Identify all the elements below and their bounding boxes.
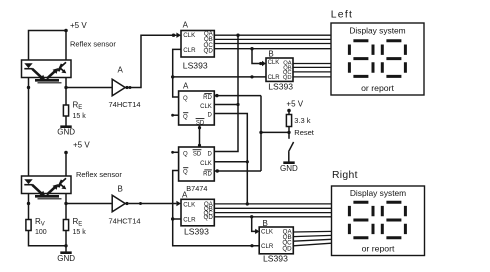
junction RD U3a pin dot: [215, 94, 218, 97]
svg-text:LS393: LS393: [184, 227, 209, 237]
svg-text:15 k: 15 k: [73, 229, 87, 236]
svg-text:LS393: LS393: [268, 82, 293, 92]
junction on LED2 cathode wire: [27, 202, 30, 205]
node +5V reset: [286, 99, 303, 112]
wire QD B1 to display: [293, 76, 331, 78]
wire QD A1 to CLK B1 cascade: [252, 49, 262, 64]
wire RD bus vertical: [260, 96, 262, 171]
resistor RV: [26, 217, 47, 236]
wire CLR A2 branch: [173, 218, 181, 220]
svg-text:or report: or report: [362, 243, 395, 253]
svg-text:Q: Q: [183, 115, 188, 121]
wire R1 to reset node: [288, 127, 290, 133]
wire U3b RD to reset bus: [214, 170, 261, 172]
wire QB B1 to display: [293, 66, 331, 68]
wire emitter 2 to RE2: [65, 194, 67, 220]
svg-text:A: A: [182, 191, 188, 200]
svg-text:A: A: [183, 20, 189, 29]
resistor RE2: [63, 217, 86, 236]
pin dot U3b Q: [171, 151, 174, 154]
svg-text:100: 100: [35, 229, 47, 236]
wire +5V to collector sensor 1: [65, 31, 67, 61]
stub U3b Q: [172, 151, 178, 153]
wire QC A2 to display: [214, 212, 331, 214]
svg-text:B: B: [268, 49, 273, 58]
junction CLR bus left: [171, 75, 174, 78]
junction on LED chain: [27, 86, 30, 89]
junction SD lower: [198, 144, 201, 147]
svg-text:CLK: CLK: [268, 60, 280, 66]
junction CLR A2 tap: [171, 217, 174, 220]
junction SD upper: [198, 126, 201, 129]
ground GND1: [57, 127, 75, 137]
wire CLR A1 to Q of U3a: [173, 49, 181, 97]
wire QD A1 to display: [214, 48, 331, 50]
svg-text:or report: or report: [361, 83, 394, 93]
junction ground rail: [64, 244, 67, 247]
svg-text:CLK: CLK: [183, 32, 196, 39]
counter LS393 B2 (Right, second): [259, 219, 293, 264]
wire U3b Qbar to CLR bus of right counters: [173, 171, 260, 246]
svg-text:74HCT14: 74HCT14: [109, 100, 141, 109]
wire RV to ground rail: [29, 231, 67, 246]
svg-text:+5 V: +5 V: [73, 140, 90, 149]
wire emitter 1 to RE1: [65, 78, 67, 106]
svg-text:74HCT14: 74HCT14: [109, 216, 141, 225]
reflective bar sensor 1: [35, 80, 62, 83]
svg-text:GND: GND: [280, 164, 298, 173]
seven segment digit 1 Left: [349, 41, 373, 77]
wire LED2 cathode to RV: [28, 194, 30, 220]
wire QD A2 to CLK B2 cascade: [252, 217, 256, 232]
clock wedge CLK B2: [255, 229, 259, 234]
svg-text:RD: RD: [203, 95, 212, 101]
junction QD A1: [250, 47, 253, 50]
LED D2: [24, 179, 32, 184]
svg-text:SD: SD: [196, 120, 205, 126]
clock wedge CLK A1: [176, 33, 181, 38]
display Right box outline: [332, 186, 425, 256]
svg-text:B: B: [263, 219, 268, 228]
wire to GND2: [65, 246, 67, 252]
svg-text:CLR: CLR: [268, 75, 281, 81]
wire QA A1 to U3a CLK and U3b D: [214, 35, 238, 151]
emitted beam arrow sensor 1: [32, 69, 45, 81]
junction QA A1: [236, 34, 239, 37]
phototransistor Q2: [59, 178, 67, 189]
inverter B 74HCT14: [109, 185, 141, 226]
inverter A 74HCT14: [109, 66, 141, 109]
svg-text:3.3 k: 3.3 k: [294, 116, 311, 125]
svg-text:B: B: [118, 185, 123, 194]
svg-text:Display system: Display system: [350, 188, 406, 198]
svg-text:CLR: CLR: [183, 216, 196, 223]
junction QA A2 riser: [246, 202, 249, 205]
ground GND3: [280, 163, 298, 173]
svg-text:QD: QD: [204, 47, 214, 54]
LED D1: [24, 63, 32, 68]
svg-text:RV: RV: [35, 217, 45, 228]
junction QD A2: [250, 215, 253, 218]
wire SD link U3a to U3b: [199, 125, 201, 147]
ground GND2: [57, 253, 75, 263]
junction node B: [64, 202, 67, 205]
counter LS393 A2 (Right, first): [181, 191, 214, 237]
svg-text:LS393: LS393: [183, 60, 208, 70]
svg-text:QD: QD: [204, 214, 214, 221]
resistor RE1: [63, 101, 86, 121]
wire RE2 to ground rail: [65, 231, 67, 246]
seven segment digit 1 Right: [349, 202, 373, 238]
wire +5V to LED anode sensor 1: [29, 31, 67, 61]
wire inverter A output to CLK of LS393 A1: [129, 35, 177, 87]
wire QC B1 to display: [293, 71, 331, 73]
junction CLK U3b tap: [246, 160, 249, 163]
junction on node B wire: [139, 202, 142, 205]
wire QD B2 to display: [293, 243, 331, 246]
wire RE1 to GND1: [65, 116, 67, 126]
resistor R1 3.3k: [286, 111, 310, 127]
node +5V sensor 2: [64, 140, 90, 154]
wire U3a RD to reset bus: [214, 95, 261, 97]
junction on CLR B1 wire: [250, 75, 253, 78]
wire node B to inverter B input: [66, 203, 112, 205]
reflex sensor 2 box: [22, 176, 72, 194]
svg-text:Q: Q: [183, 96, 188, 102]
clock wedge CLK A2: [176, 201, 181, 206]
reflective bar sensor 2: [35, 196, 62, 199]
svg-text:+5 V: +5 V: [70, 21, 87, 30]
svg-text:Reset: Reset: [294, 128, 315, 137]
svg-text:Reflex sensor: Reflex sensor: [70, 40, 116, 49]
reflected beam arrow sensor 2: [47, 184, 59, 195]
emitted beam arrow sensor 2: [32, 185, 45, 197]
junction reset node: [287, 131, 290, 134]
wire QB B2 to display: [293, 235, 331, 236]
wire inverter B output to CLK of LS393 A2: [129, 203, 177, 205]
wire node A to inverter A input: [66, 87, 112, 89]
svg-text:CLK: CLK: [200, 104, 212, 110]
junction RD bus at reset: [259, 131, 262, 134]
display system Left box: [331, 10, 424, 96]
pushbutton S1: [289, 132, 294, 161]
reflected beam arrow sensor 1: [47, 68, 59, 79]
wire +5V to collector sensor 2: [65, 153, 67, 177]
junction before CLK B1: [259, 62, 262, 65]
seven segment digit 2 Right: [382, 202, 405, 238]
svg-text:Left: Left: [331, 10, 354, 21]
svg-text:B7474: B7474: [186, 184, 207, 193]
junction before CLK A1: [172, 34, 175, 37]
display system Right box: [332, 170, 425, 256]
wire QC A1 to display: [214, 43, 331, 45]
svg-text:Q: Q: [183, 152, 188, 158]
svg-text:RD: RD: [203, 171, 212, 177]
svg-text:+5 V: +5 V: [286, 99, 303, 108]
svg-text:LS393: LS393: [263, 254, 288, 264]
wire U3a CLK: [214, 104, 238, 106]
node +5V sensor 1: [64, 21, 87, 32]
svg-text:CLK: CLK: [183, 201, 196, 208]
svg-text:RE: RE: [73, 101, 83, 112]
flip-flop U3a 7474 upper: [179, 82, 215, 127]
clock wedge CLK B1: [262, 61, 266, 66]
wire QD A2 to display: [214, 216, 331, 218]
junction before CLK B2: [255, 230, 258, 233]
svg-text:A: A: [183, 82, 189, 91]
reflex sensor 1 box: [22, 60, 72, 78]
junction at inverter A output: [129, 86, 132, 89]
flip-flop U3b 7474 lower: [179, 147, 215, 193]
wire QC B2 to display: [293, 239, 331, 241]
wire QA A1 to display: [214, 34, 331, 36]
junction before CLR B2: [250, 244, 253, 247]
display Left box outline: [331, 23, 424, 95]
svg-text:CLR: CLR: [183, 47, 196, 54]
svg-text:Display system: Display system: [349, 26, 405, 36]
svg-text:D: D: [207, 152, 212, 158]
seven segment digit 2 Left: [382, 41, 405, 77]
wire U3b CLK to QA A2 riser: [214, 161, 247, 163]
counter LS393 B1 (Left, second): [266, 49, 293, 91]
pin dot U3a Qbar: [171, 114, 174, 117]
junction node A: [64, 86, 67, 89]
stub U3a Qbar: [172, 114, 178, 116]
svg-text:15 k: 15 k: [73, 113, 87, 120]
svg-text:RE: RE: [73, 217, 83, 228]
svg-text:Right: Right: [332, 170, 358, 181]
wire QB A1 to display: [214, 38, 331, 40]
svg-text:QD: QD: [282, 246, 292, 253]
svg-text:CLK: CLK: [261, 228, 274, 235]
svg-text:A: A: [118, 66, 124, 75]
wire QA B2 to display: [293, 230, 331, 233]
wire LED1 cathode down to LED2 anode: [28, 78, 30, 177]
svg-text:Q: Q: [183, 170, 188, 176]
wire QA B1 to display: [293, 63, 331, 65]
counter LS393 A1 (Left, first): [181, 20, 214, 70]
junction U3a CLK tap: [236, 103, 239, 106]
svg-text:Reflex sensor: Reflex sensor: [76, 170, 122, 179]
svg-text:QD: QD: [283, 75, 292, 81]
svg-text:GND: GND: [57, 128, 75, 137]
wire U3a D from QA A2 riser: [214, 114, 247, 204]
junction RD U3b pin dot: [216, 169, 219, 172]
svg-text:D: D: [207, 113, 212, 119]
wire reset node to RD bus: [261, 131, 289, 133]
svg-text:GND: GND: [57, 254, 75, 263]
svg-text:CLK: CLK: [200, 161, 212, 167]
svg-text:CLR: CLR: [261, 243, 274, 250]
svg-text:SD: SD: [193, 152, 202, 158]
phototransistor Q1: [59, 62, 67, 73]
wire CLR bus to CLR B1: [173, 76, 266, 78]
wire QB A2 to display: [214, 207, 331, 209]
wire QA A2 to display: [214, 203, 331, 205]
